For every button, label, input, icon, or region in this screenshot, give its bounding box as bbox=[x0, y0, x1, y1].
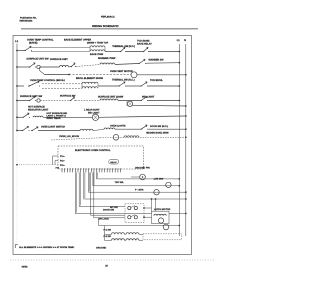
wire row2 to L1 rail bbox=[146, 62, 179, 65]
wire bake element left tap bbox=[89, 47, 91, 51]
wire row1 upper branch bbox=[31, 46, 90, 48]
wire row7 right-mid bbox=[115, 128, 140, 130]
switch oven temp control (bake) bbox=[24, 46, 32, 50]
latch motor box bbox=[152, 211, 170, 223]
switch row7 b bbox=[31, 127, 39, 131]
switch oven temp control (broil) bbox=[28, 81, 40, 86]
switch row7 right bbox=[140, 125, 148, 129]
lamp row b3 bbox=[154, 190, 159, 195]
svg-text:SURFACE UNIT SW: SURFACE UNIT SW bbox=[26, 58, 49, 61]
ground pin symbol bbox=[140, 174, 146, 180]
svg-text:OVEN_LIG_MOON: OVEN_LIG_MOON bbox=[59, 135, 79, 138]
svg-text:SURFACE UNIT SW: SURFACE UNIT SW bbox=[20, 95, 43, 98]
wire row3 to N rail bbox=[137, 74, 186, 76]
bus wire 7 door lock lower bbox=[90, 172, 92, 215]
receptacle left-front bbox=[37, 99, 40, 102]
switch TOD broil contact bbox=[140, 82, 148, 86]
wire row2 mid-left bbox=[40, 66, 59, 68]
wire right L1 rail bbox=[178, 44, 180, 236]
latch motor winding bbox=[154, 214, 166, 216]
wire row7 left bbox=[17, 130, 22, 132]
wire row7 mid-left bbox=[39, 130, 80, 132]
wire row4 left bbox=[17, 85, 24, 87]
svg-text:THERMAL SW (N.C.): THERMAL SW (N.C.) bbox=[112, 79, 135, 82]
switch broil thermal bbox=[118, 82, 126, 86]
wire row1 mid bbox=[105, 51, 120, 53]
bus wire 5 to door lock sw bbox=[78, 172, 80, 206]
wire row12 drop bbox=[104, 226, 106, 241]
element row8 bbox=[124, 136, 139, 137]
svg-text:BAKE RELAY: BAKE RELAY bbox=[137, 42, 152, 45]
svg-text:OVEN VENT MOTOR: OVEN VENT MOTOR bbox=[110, 70, 133, 73]
svg-text:2585W + 750W TOP: 2585W + 750W TOP bbox=[87, 41, 109, 44]
svg-text:HIDDEN BAKE 350W: HIDDEN BAKE 350W bbox=[146, 131, 169, 134]
motor oven vent bbox=[131, 72, 137, 78]
element row6 resistor bbox=[33, 116, 43, 117]
svg-text:SURFACE UNIT: SURFACE UNIT bbox=[50, 58, 68, 61]
switch surface unit right-rear bbox=[29, 63, 37, 67]
svg-text:INT SW: INT SW bbox=[110, 206, 119, 209]
svg-text:P - MTR: P - MTR bbox=[135, 189, 144, 192]
svg-text:LVS 40W: LVS 40W bbox=[154, 177, 164, 180]
svg-text:TDF W/L: TDF W/L bbox=[115, 181, 125, 184]
svg-text:DR LOCK: DR LOCK bbox=[99, 218, 110, 221]
wire row5 to L1 rail bbox=[148, 100, 179, 102]
wire row5 left bbox=[17, 100, 29, 102]
node door lock box right upper bbox=[143, 207, 145, 209]
wire row7 mid bbox=[93, 129, 104, 131]
svg-text:HOT SURFACE: HOT SURFACE bbox=[28, 106, 45, 109]
wire row2 left bbox=[17, 66, 29, 68]
wire row4 to L1 rail bbox=[148, 85, 179, 87]
svg-text:Publication No.: Publication No. bbox=[20, 16, 37, 19]
element row7 bbox=[80, 129, 93, 131]
wire row1 left bbox=[17, 50, 24, 52]
wire latch tap 1 bbox=[151, 199, 153, 211]
bus wire 3 clock lamp feed bbox=[87, 172, 89, 192]
bus wire 6 to latch motor bbox=[74, 172, 76, 213]
wire row3 left bbox=[45, 74, 70, 76]
svg-text:P10: P10 bbox=[56, 167, 59, 170]
svg-text:INDICATOR LIGHT: INDICATOR LIGHT bbox=[28, 108, 49, 111]
switch surface unit left-front bbox=[29, 96, 37, 100]
wire door lock to latch bbox=[144, 207, 152, 209]
wire row5 mid-left bbox=[40, 100, 69, 102]
wire row1 lower branch bbox=[31, 50, 90, 52]
svg-text:OVEN TEMP CONTROL (BROIL): OVEN TEMP CONTROL (BROIL) bbox=[30, 79, 65, 82]
wire left L1 rail bbox=[16, 44, 18, 132]
wire row11 drop bbox=[98, 218, 100, 226]
svg-text:TOD BROIL: TOD BROIL bbox=[150, 79, 163, 82]
EOC connector P10 ticks bbox=[62, 168, 121, 172]
svg-text:N: N bbox=[184, 39, 186, 42]
svg-text:L REAR SURF: L REAR SURF bbox=[84, 109, 100, 112]
wire row4 lower branch bbox=[42, 87, 82, 89]
wire row4 mid bbox=[98, 85, 118, 87]
svg-text:L1: L1 bbox=[15, 40, 19, 43]
bake element upper section bbox=[90, 46, 105, 48]
svg-text:RELAY: RELAY bbox=[110, 161, 117, 164]
EOC electronic oven control box bbox=[58, 146, 144, 169]
switch warmer switch bbox=[138, 59, 146, 63]
wire row6 mid-left bbox=[43, 116, 92, 118]
bus wire 4 latch feed bbox=[83, 172, 85, 199]
wire left rail dotted continuation bbox=[16, 131, 18, 244]
wire EOC input L mid bbox=[55, 160, 58, 162]
wire row6 left bbox=[17, 116, 22, 118]
wire row8 bbox=[51, 138, 100, 140]
lamp surface indicator bbox=[127, 101, 132, 106]
switch thermal switch bbox=[120, 47, 127, 51]
svg-text:5995434243: 5995434243 bbox=[20, 20, 33, 23]
wire door lock lower out bbox=[144, 216, 152, 218]
switch TOD bake contact bbox=[143, 47, 150, 51]
svg-text:FEFL89ACC: FEFL89ACC bbox=[101, 15, 115, 18]
wire latch motor to N rail bbox=[169, 213, 186, 215]
svg-text:ALL ELEMENTS ∿∿∿ SHOWN ∿∿ AT R: ALL ELEMENTS ∿∿∿ SHOWN ∿∿ AT ROOM TEMP. bbox=[19, 246, 75, 249]
wire broil element left tap bbox=[81, 84, 83, 89]
svg-text:WARMER SW: WARMER SW bbox=[149, 58, 165, 61]
wire row4 upper branch bbox=[42, 83, 82, 85]
wire right N rail bbox=[185, 44, 187, 236]
node door lock box right lower bbox=[143, 216, 145, 218]
wire row7 to N rail bbox=[148, 128, 186, 130]
door lock switch contact upper bbox=[128, 206, 131, 209]
wire bake element right tap bbox=[104, 47, 106, 51]
wire latch tap 2 bbox=[155, 199, 157, 211]
svg-text:WIRING SCHEMATIC: WIRING SCHEMATIC bbox=[92, 25, 119, 28]
lamp top surface bbox=[92, 114, 98, 120]
svg-text:BAKE 750W: BAKE 750W bbox=[90, 53, 104, 56]
svg-text:10: 10 bbox=[105, 264, 108, 267]
title rule bbox=[21, 28, 198, 30]
wire row5 right-mid bbox=[118, 100, 140, 102]
EOC relay oval bbox=[109, 159, 119, 164]
wire ground pin stub bbox=[131, 176, 140, 178]
wire row1 right-mid bbox=[126, 51, 143, 53]
wire row6 to N rail bbox=[99, 116, 186, 117]
wire row11 bbox=[99, 225, 180, 227]
svg-text:L1: L1 bbox=[177, 39, 181, 42]
svg-text:BAKE ELEMENT UPPER: BAKE ELEMENT UPPER bbox=[64, 38, 91, 41]
svg-text:LATCH MOTOR: LATCH MOTOR bbox=[154, 208, 171, 211]
lamp row8 bbox=[113, 135, 119, 141]
lamp oven light bbox=[166, 182, 171, 187]
door lock switch contact lower bbox=[128, 216, 131, 219]
bus wire 2 oven light feed bbox=[92, 172, 94, 185]
wire EOC input dotted from rail bbox=[17, 164, 58, 166]
wire broil element right tap bbox=[97, 84, 99, 86]
receptacle right-rear bbox=[37, 65, 40, 68]
terminal block box bbox=[143, 234, 181, 240]
lamp row11 bbox=[163, 224, 169, 230]
wire row5b drop bbox=[126, 101, 128, 107]
wire row12b bbox=[105, 239, 112, 241]
svg-text:GROUND: GROUND bbox=[96, 247, 107, 250]
svg-text:P3 ▸: P3 ▸ bbox=[60, 164, 65, 167]
switch row6 bbox=[22, 113, 30, 117]
element row12b bbox=[112, 239, 125, 241]
svg-text:DOOR SW (N.O.): DOOR SW (N.O.) bbox=[150, 125, 168, 128]
bus wire 8 dashed bbox=[93, 172, 95, 217]
svg-text:P1 ▸: P1 ▸ bbox=[60, 155, 65, 158]
warmer element bbox=[100, 63, 115, 65]
footer fold dotted rule bbox=[10, 259, 214, 261]
surface element left-front bbox=[100, 99, 118, 101]
surface element right-rear bbox=[60, 66, 69, 68]
wire row5b to N rail bbox=[133, 104, 186, 107]
svg-text:IND. LIGHT: IND. LIGHT bbox=[142, 96, 155, 99]
wire row3 mid bbox=[69, 74, 131, 76]
wire row3 drop bbox=[39, 67, 41, 71]
svg-text:HOT SURFACE IND: HOT SURFACE IND bbox=[47, 112, 68, 115]
svg-text:RIGHT REAR: RIGHT REAR bbox=[47, 117, 61, 120]
svg-text:IND LIGHT: IND LIGHT bbox=[88, 111, 100, 114]
svg-text:OVEN LIGHTS: OVEN LIGHTS bbox=[110, 124, 126, 127]
bus wire 1 bbox=[95, 172, 97, 179]
svg-text:LIGHT L FRONT &: LIGHT L FRONT & bbox=[47, 115, 67, 118]
wire EOC input L upper bbox=[53, 155, 59, 157]
svg-text:OVEN LIGHT SWITCH: OVEN LIGHT SWITCH bbox=[41, 125, 65, 128]
svg-text:WARMER 750W: WARMER 750W bbox=[98, 57, 116, 60]
svg-text:GROUND PIN: GROUND PIN bbox=[135, 166, 150, 169]
switch row5 mid bbox=[70, 97, 76, 101]
svg-text:TOD (NOM): TOD (NOM) bbox=[137, 40, 150, 43]
svg-text:SURFACE SW: SURFACE SW bbox=[60, 95, 76, 98]
door lock switch box bbox=[125, 204, 144, 223]
svg-text:P2 ▸: P2 ▸ bbox=[60, 160, 65, 163]
switch row2 mid bbox=[70, 63, 76, 67]
wire row5 mid2 bbox=[76, 100, 101, 102]
element row12a bbox=[112, 233, 125, 235]
svg-text:40/02: 40/02 bbox=[22, 266, 29, 269]
broil element upper section bbox=[82, 82, 98, 84]
svg-text:SURFACE UNIT 1200W: SURFACE UNIT 1200W bbox=[98, 95, 124, 98]
wire row12a bbox=[105, 233, 112, 235]
bake element lower section bbox=[90, 50, 105, 51]
schematic border box bbox=[13, 36, 192, 255]
broil element lower section bbox=[82, 87, 98, 89]
wire row2 mid bbox=[69, 66, 71, 68]
wire row2 right-mid bbox=[115, 64, 138, 65]
element row7b bbox=[104, 128, 115, 129]
switch row7 a bbox=[22, 126, 30, 130]
wire row4 right-mid bbox=[126, 85, 140, 87]
wire row1 to L1 rail bbox=[149, 51, 179, 53]
legend bracket bbox=[15, 245, 18, 248]
svg-text:BROIL ELEMENT 3400W: BROIL ELEMENT 3400W bbox=[76, 77, 104, 80]
svg-text:ELECTRONIC OVEN CONTROL: ELECTRONIC OVEN CONTROL bbox=[75, 149, 111, 152]
svg-text:(BAKE): (BAKE) bbox=[29, 41, 38, 44]
switch surface LF bbox=[140, 96, 148, 100]
motor latch bbox=[158, 218, 163, 223]
